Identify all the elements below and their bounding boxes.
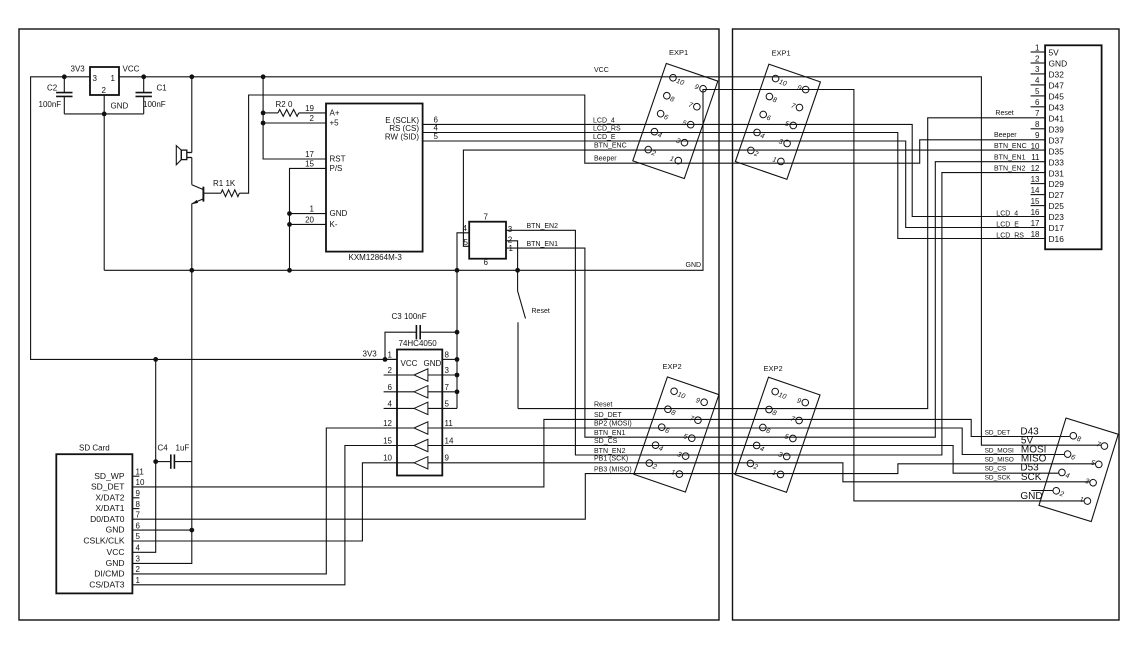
connector EXP2 (right sheet) <box>735 377 820 492</box>
capacitor C4 1uF <box>156 454 192 468</box>
svg-text:D43: D43 <box>1049 102 1065 112</box>
label EXP1 (right) <box>772 49 791 58</box>
svg-text:BTN_EN2: BTN_EN2 <box>527 223 559 230</box>
svg-text:100nF: 100nF <box>39 100 62 109</box>
svg-text:9: 9 <box>136 489 141 498</box>
svg-text:1: 1 <box>388 350 393 359</box>
svg-text:3: 3 <box>93 74 98 83</box>
svg-text:2: 2 <box>102 86 107 95</box>
svg-text:D0/DAT0: D0/DAT0 <box>90 514 125 524</box>
svg-text:D39: D39 <box>1049 124 1065 134</box>
svg-text:BP2 (MOSI): BP2 (MOSI) <box>594 420 632 427</box>
svg-text:LCD_E: LCD_E <box>996 221 1019 228</box>
connector EXP1 (right sheet) <box>735 64 820 179</box>
label GND (at 8-pin connector) <box>1020 491 1042 502</box>
svg-text:4: 4 <box>1035 76 1040 85</box>
svg-text:D35: D35 <box>1049 146 1065 156</box>
svg-text:6: 6 <box>1035 98 1040 107</box>
wire PB1 (SCK) net (74HC4050 pin9 to 8-pin connector pin3) <box>428 463 1091 482</box>
wire 18-pin header unconnected pin stubs <box>1031 52 1046 206</box>
node GND tie junctions <box>455 330 460 394</box>
svg-text:R1 1K: R1 1K <box>213 179 236 188</box>
svg-text:2: 2 <box>388 366 393 375</box>
label GND (regulator) <box>111 102 129 111</box>
svg-text:GND: GND <box>424 359 442 368</box>
svg-text:SD_DET: SD_DET <box>91 482 125 492</box>
label PB1 (SCK) (at EXP2) <box>594 456 628 463</box>
wire BTN_ENC net (encoder pin5 up and across to header pin10) <box>463 150 1045 246</box>
label SD_DET (at 8-pin connector) <box>985 429 1011 436</box>
svg-text:SD_DET: SD_DET <box>594 412 622 419</box>
label SCK (at 8-pin connector) <box>1021 472 1042 483</box>
svg-text:7: 7 <box>484 213 489 222</box>
node C4 junction <box>153 459 158 464</box>
svg-text:BTN_EN1: BTN_EN1 <box>594 430 626 437</box>
svg-text:D27: D27 <box>1049 190 1065 200</box>
svg-text:17: 17 <box>305 150 314 159</box>
svg-text:Reset: Reset <box>532 308 550 315</box>
svg-text:D23: D23 <box>1049 212 1065 222</box>
label 74HC4050 <box>399 339 438 348</box>
label Reset (at EXP2) <box>594 401 612 408</box>
label PB3 (MISO) (at EXP2) <box>594 466 632 473</box>
node regulator GND junction <box>102 112 107 117</box>
svg-text:D33: D33 <box>1049 157 1065 167</box>
node LCD gnd junctions <box>287 211 292 227</box>
svg-text:1uF: 1uF <box>176 443 190 452</box>
wire CLK net (SD pin5 to 74HC4050 pin10) <box>132 463 414 541</box>
label EXP1 (left) <box>669 48 688 57</box>
resistor R1 1K <box>221 190 240 197</box>
svg-text:RST: RST <box>330 155 346 164</box>
svg-text:SD_MISO: SD_MISO <box>985 456 1014 463</box>
capacitor C2 100nF <box>56 77 72 114</box>
svg-text:K-: K- <box>330 220 338 229</box>
svg-text:15: 15 <box>1031 197 1040 206</box>
label 3V3 (top) <box>71 65 86 74</box>
svg-text:BTN_ENC: BTN_ENC <box>594 143 627 150</box>
label LCD_RS (near EXP1) <box>593 125 621 132</box>
capacitor C1 100nF <box>136 77 152 114</box>
svg-text:3: 3 <box>1035 65 1040 74</box>
svg-text:2: 2 <box>1035 54 1040 63</box>
svg-text:12: 12 <box>1031 164 1040 173</box>
label D43 (at 8-pin connector) <box>1020 427 1039 438</box>
wire SD_CS net (74HC4050 pin14 to 8-pin connector pin4) <box>428 446 1059 474</box>
svg-text:CS/DAT3: CS/DAT3 <box>89 579 125 589</box>
wire PB3 (MISO) net (SD pin7 to 8-pin connector pin5) <box>132 464 1095 519</box>
label C3 100nF <box>392 312 427 321</box>
svg-text:Reset: Reset <box>594 401 612 408</box>
svg-text:GND: GND <box>1049 59 1068 69</box>
capacitor C3 100nF <box>414 325 457 339</box>
18-pin header connector (right sheet) <box>1045 45 1102 249</box>
svg-text:10: 10 <box>1031 142 1040 151</box>
label C4 1uF <box>176 443 190 452</box>
label R2 0 <box>276 100 293 109</box>
svg-text:C1: C1 <box>157 84 168 93</box>
wire LCD P/S,GND,K- tie to ground rail <box>290 168 327 270</box>
svg-text:10: 10 <box>383 454 392 463</box>
svg-text:5: 5 <box>1035 87 1040 96</box>
svg-text:X/DAT1: X/DAT1 <box>95 503 124 513</box>
rotary encoder <box>463 213 514 267</box>
svg-text:4: 4 <box>136 544 141 553</box>
svg-text:D37: D37 <box>1049 135 1065 145</box>
svg-text:7: 7 <box>445 383 450 392</box>
svg-text:RW (SID): RW (SID) <box>385 133 419 142</box>
svg-text:74HC4050: 74HC4050 <box>399 339 438 348</box>
svg-text:3: 3 <box>445 366 450 375</box>
svg-text:8: 8 <box>136 500 141 509</box>
wire 74HC4050 pin1 stub <box>385 358 397 360</box>
label BTN_EN1 (near encoder) <box>527 241 559 248</box>
svg-text:GND: GND <box>106 525 125 535</box>
label EXP2 (left) <box>663 362 682 371</box>
label SD Card <box>79 444 110 453</box>
pin numbers 74HC4050 right <box>445 350 454 462</box>
svg-text:14: 14 <box>445 436 454 445</box>
label SD_DET (at EXP2) <box>594 412 622 419</box>
svg-text:Beeper: Beeper <box>994 132 1017 139</box>
svg-text:1: 1 <box>1035 43 1040 52</box>
label C1 100nF <box>143 100 166 109</box>
wire LCD_E net (LCD pin5 to header pin17) <box>423 141 1046 228</box>
label C4 <box>158 443 169 452</box>
svg-text:C4: C4 <box>158 443 169 452</box>
svg-text:15: 15 <box>383 436 392 445</box>
voltage regulator 3V3/VCC <box>90 67 119 95</box>
svg-text:VCC: VCC <box>594 67 609 74</box>
wire BTN_EN2 net (encoder pin3 to header pin12) <box>506 173 1045 455</box>
svg-text:11: 11 <box>136 467 145 476</box>
wire Reset net (switch to header pin7) <box>518 118 1045 409</box>
label VCC (regulator output) <box>123 65 140 74</box>
svg-text:5V: 5V <box>1049 48 1060 58</box>
svg-text:BTN_EN1: BTN_EN1 <box>527 241 559 248</box>
label BTN_ENC (at header) <box>994 143 1027 150</box>
label BTN_EN1 (at header) <box>994 155 1026 162</box>
pin numbers LCD right <box>434 115 439 141</box>
svg-text:D29: D29 <box>1049 179 1065 189</box>
svg-text:Beeper: Beeper <box>594 156 617 163</box>
right schematic sheet frame <box>733 29 1120 620</box>
wire R2 to LCD pin19 <box>299 112 326 114</box>
left schematic sheet frame <box>19 29 719 620</box>
svg-text:EXP1: EXP1 <box>772 49 791 58</box>
svg-text:GND: GND <box>111 102 129 111</box>
svg-text:15: 15 <box>305 159 314 168</box>
reset switch <box>518 270 526 408</box>
svg-text:SD_MOSI: SD_MOSI <box>985 447 1014 454</box>
label Reset (at header) <box>995 110 1013 117</box>
svg-text:D45: D45 <box>1049 92 1065 102</box>
wire VCC rail (regulator pin1 across both sheets, down to 8-pin connector pin7 5V) <box>119 77 1101 445</box>
label SD_CS (at EXP2) <box>594 438 618 445</box>
wire +5 to LCD pin2 <box>263 122 326 124</box>
label BTN_EN1 (at EXP2) <box>594 430 626 437</box>
pin numbers LCD left <box>305 104 314 224</box>
svg-text:7: 7 <box>136 510 141 519</box>
transistor Q1 (NPN driver) <box>191 158 203 271</box>
label BTN_EN2 (at header) <box>994 166 1026 173</box>
label SD_MISO (at 8-pin connector) <box>985 456 1014 463</box>
LCD module U1 KXM12864M-3 <box>326 104 423 252</box>
svg-text:2: 2 <box>136 565 141 574</box>
label C1 <box>157 84 168 93</box>
wire GND tie vertical (encoder pin4 / C3 / 74HC4050 pins 8,3,7,5) <box>428 270 457 408</box>
wire BP2 (MOSI) net (74HC4050 pin11 to 8-pin connector pin6) <box>428 428 1065 455</box>
node VCC rail junctions <box>141 74 265 79</box>
pin numbers 74HC4050 left <box>383 350 392 462</box>
label BTN_EN2 (near encoder) <box>527 223 559 230</box>
wire SD_DET net (SD pin10 to 8-pin connector pin8) <box>132 419 1069 487</box>
svg-text:PB1 (SCK): PB1 (SCK) <box>594 456 628 463</box>
label SD_SCK (at 8-pin connector) <box>985 475 1012 482</box>
label BTN_ENC (near EXP1) <box>594 143 627 150</box>
svg-text:9: 9 <box>1035 131 1040 140</box>
svg-text:GND: GND <box>686 262 702 269</box>
svg-text:VCC: VCC <box>107 547 125 557</box>
svg-text:D31: D31 <box>1049 168 1065 178</box>
svg-text:Reset: Reset <box>995 110 1013 117</box>
connector EXP1 (left sheet) <box>633 63 718 178</box>
svg-text:5: 5 <box>464 238 469 247</box>
svg-text:D32: D32 <box>1049 70 1065 80</box>
SD Card connector <box>56 454 132 593</box>
wire DI/CMD net (SD pin2 to 74HC4050 pin12) <box>132 428 414 574</box>
wire GND net (caps gnd, main gnd rail, up to EXP1 pin9, across to right sheet, down to 8-pin connector pin1) <box>64 90 1084 501</box>
label KXM12864M-3 <box>349 253 403 262</box>
wire CS/DAT3 net (SD pin1 to 74HC4050 pin15) <box>132 446 414 585</box>
svg-text:18: 18 <box>1031 230 1040 239</box>
svg-text:P/S: P/S <box>330 164 343 173</box>
wire LCD_RS net (LCD pin4 to header pin18) <box>423 133 1046 239</box>
svg-text:6: 6 <box>388 383 393 392</box>
svg-text:VCC: VCC <box>123 65 140 74</box>
connector EXP2 (left sheet) <box>634 377 719 492</box>
node R2/+5 junctions <box>261 111 266 126</box>
label LCD_RS (at header) <box>996 233 1024 240</box>
svg-text:GND: GND <box>330 209 348 218</box>
svg-text:+5: +5 <box>330 119 340 128</box>
svg-text:17: 17 <box>1031 219 1040 228</box>
svg-text:3: 3 <box>508 225 513 234</box>
svg-text:16: 16 <box>1031 208 1040 217</box>
svg-text:EXP2: EXP2 <box>663 362 682 371</box>
svg-text:PB3 (MISO): PB3 (MISO) <box>594 466 632 473</box>
label SD_MOSI (at 8-pin connector) <box>985 447 1014 454</box>
svg-text:14: 14 <box>1031 186 1040 195</box>
label R1 1K <box>213 179 236 188</box>
svg-text:1: 1 <box>509 244 514 253</box>
pin numbers SD Card <box>136 467 145 585</box>
svg-text:6: 6 <box>136 521 141 530</box>
svg-text:LCD_4: LCD_4 <box>996 210 1018 217</box>
wire BTN_EN1 net (encoder pin1 to header pin11) <box>506 162 1045 438</box>
svg-text:LCD_4: LCD_4 <box>593 117 615 124</box>
label GND (left sheet net) <box>686 262 702 269</box>
svg-text:11: 11 <box>445 419 454 428</box>
svg-text:SD Card: SD Card <box>79 444 110 453</box>
svg-text:4: 4 <box>388 399 393 408</box>
node GND rail junctions <box>189 268 520 273</box>
label Beeper (at header) <box>994 132 1017 139</box>
svg-text:DI/CMD: DI/CMD <box>94 569 124 579</box>
svg-text:BTN_EN2: BTN_EN2 <box>994 166 1026 173</box>
svg-text:A+: A+ <box>330 109 340 118</box>
wire SD Card unconnected pin stubs (11,9,8) <box>132 476 139 508</box>
wire RST feed (VCC rail down to LCD pin17) <box>263 77 326 159</box>
svg-text:X/DAT2: X/DAT2 <box>95 492 124 502</box>
svg-text:5V: 5V <box>1021 435 1034 446</box>
label D53 (at 8-pin connector) <box>1020 463 1039 474</box>
label MISO (at 8-pin connector) <box>1021 454 1047 465</box>
svg-text:1: 1 <box>136 576 141 585</box>
label C2 100nF <box>39 100 62 109</box>
svg-text:SD_CS: SD_CS <box>594 438 618 445</box>
label LCD_4 (near EXP1) <box>593 117 615 124</box>
svg-text:VCC: VCC <box>401 359 418 368</box>
svg-text:3V3: 3V3 <box>363 350 378 359</box>
svg-text:5: 5 <box>445 399 450 408</box>
label LCD_4 (at header) <box>996 210 1018 217</box>
label LCD_E (at header) <box>996 221 1019 228</box>
svg-text:EXP1: EXP1 <box>669 48 688 57</box>
wire encoder pin2 to ground <box>506 241 518 270</box>
svg-text:5: 5 <box>434 132 439 141</box>
svg-text:C3 100nF: C3 100nF <box>392 312 427 321</box>
svg-text:1: 1 <box>310 205 315 214</box>
svg-text:6: 6 <box>484 258 489 267</box>
svg-text:8: 8 <box>445 350 450 359</box>
svg-text:CSLK/CLK: CSLK/CLK <box>83 536 124 546</box>
connector 8-pin SPI/SD (right sheet) <box>1039 418 1118 521</box>
label MOSI (at 8-pin connector) <box>1021 445 1047 456</box>
svg-text:R2 0: R2 0 <box>276 100 293 109</box>
svg-text:C2: C2 <box>47 84 58 93</box>
node 3V3/C2 junction <box>62 74 67 79</box>
resistor R2 0 <box>278 110 299 117</box>
svg-text:SD_DET: SD_DET <box>985 429 1011 436</box>
svg-text:12: 12 <box>383 419 392 428</box>
svg-text:13: 13 <box>1031 175 1040 184</box>
wire GND branch to SD card pins 3 and 6 and C4 <box>132 270 191 563</box>
label LCD_E (near EXP1) <box>593 134 616 141</box>
wire encoder pin4 to ground <box>457 233 469 270</box>
svg-text:D41: D41 <box>1049 113 1065 123</box>
svg-text:20: 20 <box>305 215 314 224</box>
wire 3V3 net (regulator pin3 to left rail, down to 74HC4050 pin1 and SD VCC) <box>31 77 414 553</box>
wire 74HC4050 unused buffer inputs pins 2,6,4 <box>384 375 414 408</box>
node 3V3 rail junctions <box>153 357 387 362</box>
pin numbers 18-pin header <box>1031 43 1040 239</box>
wire 8-pin connector pin2 stub <box>1031 490 1053 492</box>
speaker <box>176 146 192 165</box>
svg-text:100nF: 100nF <box>143 100 166 109</box>
svg-text:9: 9 <box>445 454 450 463</box>
svg-text:2: 2 <box>508 235 513 244</box>
buffer IC 74HC4050 <box>397 350 442 476</box>
svg-text:GND: GND <box>1020 491 1042 502</box>
wire LCD_4 net (LCD pin6 to header pin16) <box>423 124 1046 216</box>
svg-text:3: 3 <box>136 555 141 564</box>
svg-text:8: 8 <box>1035 120 1040 129</box>
svg-text:LCD_RS: LCD_RS <box>996 233 1024 240</box>
wire Beeper net (R1 up and across to header pin 9) <box>239 95 1045 193</box>
label 3V3 (at 74HC4050) <box>363 350 378 359</box>
svg-text:19: 19 <box>305 104 314 113</box>
label Beeper (net, near EXP1) <box>594 156 617 163</box>
svg-text:SCK: SCK <box>1021 472 1042 483</box>
svg-text:7: 7 <box>1035 109 1040 118</box>
svg-text:SD_SCK: SD_SCK <box>985 475 1012 482</box>
svg-text:3V3: 3V3 <box>71 65 86 74</box>
svg-text:KXM12864M-3: KXM12864M-3 <box>349 253 403 262</box>
svg-text:10: 10 <box>136 478 145 487</box>
node SD GND junctions <box>189 528 194 533</box>
svg-text:GND: GND <box>106 558 125 568</box>
svg-text:D17: D17 <box>1049 223 1065 233</box>
svg-text:SD_WP: SD_WP <box>94 471 125 481</box>
label BP2 (MOSI) (at EXP2) <box>594 420 632 427</box>
svg-text:11: 11 <box>1031 153 1040 162</box>
label EXP2 (right) <box>764 364 783 373</box>
svg-text:D25: D25 <box>1049 201 1065 211</box>
svg-text:D47: D47 <box>1049 81 1065 91</box>
svg-text:LCD_RS: LCD_RS <box>593 125 621 132</box>
svg-text:2: 2 <box>310 114 315 123</box>
wire R2 left <box>263 112 278 114</box>
label 5V (at 8-pin connector) <box>1021 435 1034 446</box>
svg-text:D16: D16 <box>1049 234 1065 244</box>
label VCC (net, near EXP1) <box>594 67 609 74</box>
wire transistor base <box>203 192 221 194</box>
label SD_CS (at 8-pin connector) <box>985 465 1007 472</box>
svg-text:BTN_EN2: BTN_EN2 <box>594 448 626 455</box>
wire VCC to speaker <box>191 77 193 153</box>
svg-text:SD_CS: SD_CS <box>985 465 1007 472</box>
svg-text:EXP2: EXP2 <box>764 364 783 373</box>
svg-text:5: 5 <box>136 532 141 541</box>
label Reset (switch) <box>532 308 550 315</box>
svg-text:LCD_E: LCD_E <box>593 134 616 141</box>
label BTN_EN2 (at EXP2) <box>594 448 626 455</box>
svg-text:1: 1 <box>111 74 116 83</box>
svg-text:BTN_ENC: BTN_ENC <box>994 143 1027 150</box>
svg-text:BTN_EN1: BTN_EN1 <box>994 155 1026 162</box>
label C2 <box>47 84 58 93</box>
svg-text:MISO: MISO <box>1021 454 1047 465</box>
